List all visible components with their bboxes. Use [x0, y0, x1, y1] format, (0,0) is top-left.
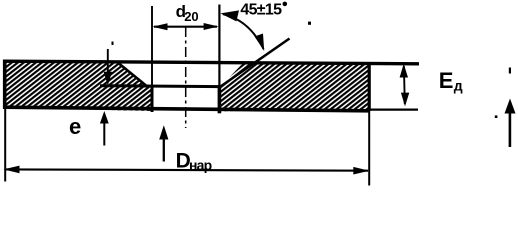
countersunk washer cross-section technical drawing [0, 0, 518, 189]
Ed dimension double arrow at right [403, 66, 406, 104]
hole centerline (dash-dot) [185, 27, 187, 128]
scan speck left of far right arrow [495, 115, 498, 118]
e dimension lower arrow (pointing up to bottom face) [100, 111, 109, 124]
hatched body left section [6, 62, 152, 112]
far right up arrow [505, 99, 516, 114]
left countersink chamfer edge [117, 62, 147, 86]
countersink bottom line [100, 84, 220, 88]
scan tick above Ed label [509, 68, 511, 74]
angle leader arc 45deg [223, 14, 264, 49]
svg-text:нар: нар [189, 157, 212, 173]
left end edge of washer [3, 60, 7, 109]
Dnar right extension line [368, 111, 370, 186]
right countersink chamfer edge extended above surface [220, 39, 290, 88]
svg-text:45±15: 45±15 [240, 1, 282, 18]
e dimension upper arrow (pointing down to countersink plane) [107, 49, 109, 74]
hatched body right section [221, 63, 369, 111]
scan tick above e arrow [112, 42, 114, 46]
svg-text:e: e [69, 114, 81, 139]
bottom face edge [3, 107, 370, 111]
svg-text:20: 20 [184, 9, 198, 24]
top face edge (with right extension for Ed) [3, 61, 419, 64]
hole right wall / d20 right extension line [218, 5, 220, 87]
d20 dimension line with arrows [154, 26, 217, 28]
scan speck near 45 label [308, 22, 311, 25]
hole left wall / d20 left extension line [151, 6, 153, 86]
degree dot [283, 2, 288, 7]
svg-text:д: д [454, 77, 463, 93]
right end edge of washer [368, 62, 371, 111]
bottom edge right extension for Ed [366, 108, 418, 110]
Dnar dimension line with arrows [5, 169, 368, 170]
Dnar left extension line [4, 109, 6, 182]
svg-text:E: E [439, 68, 454, 93]
leader up arrow near Dnar [159, 125, 168, 139]
